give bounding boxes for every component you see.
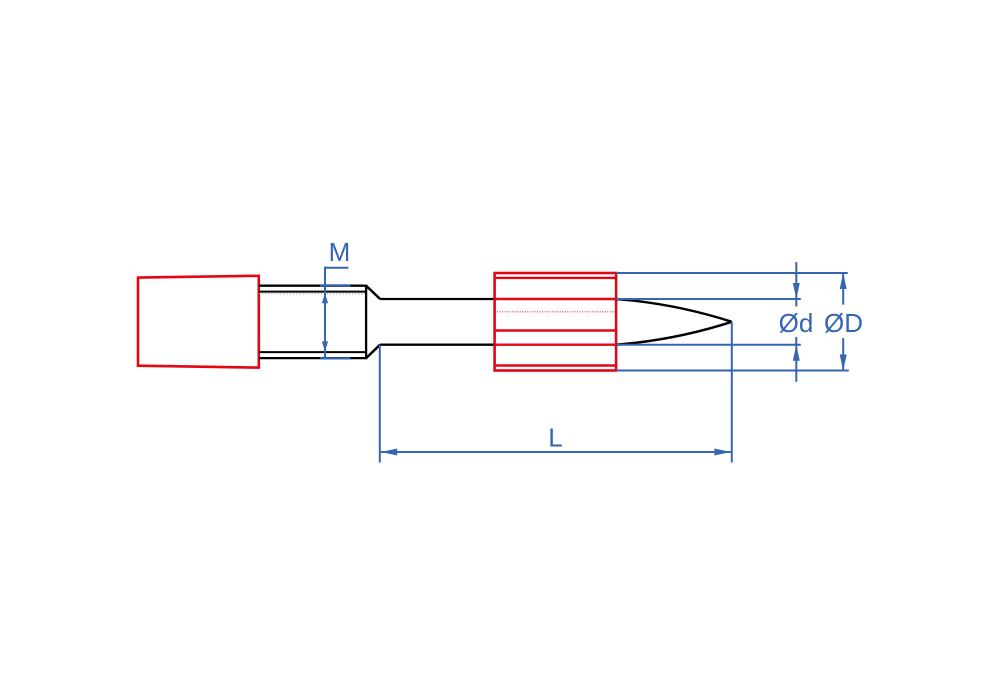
knurl line 3 thin — [495, 311, 616, 313]
thread inner bottom line — [259, 351, 366, 353]
knurled sleeve red box — [495, 273, 616, 371]
shaft top line — [380, 298, 495, 300]
knurl line 2 — [495, 298, 616, 300]
thread inner top line — [259, 291, 366, 293]
thread end vertical line — [365, 285, 367, 360]
extension line D knurl bottom — [616, 370, 849, 372]
dim Od upper line — [795, 262, 797, 307]
extension line C shaft bottom — [616, 344, 801, 346]
extension line A knurl top — [616, 272, 848, 274]
knurl line 5 — [495, 344, 616, 346]
svg-text:L: L — [548, 423, 562, 453]
dim M vertical line — [324, 267, 326, 359]
red protection cap — [138, 276, 259, 368]
chamfer top — [366, 286, 380, 299]
dim OD lower arrowhead — [840, 355, 847, 371]
dim L right arrowhead — [714, 449, 730, 456]
dim Od lower line — [795, 337, 797, 382]
dim L left extension line — [379, 345, 381, 463]
svg-text:ØD: ØD — [824, 308, 863, 338]
dim OD lower line — [842, 338, 844, 370]
thread minor dotted top line — [259, 293, 366, 295]
dim M leader horizontal — [324, 267, 349, 269]
dim M up arrowhead — [322, 293, 328, 303]
dim Od lower arrowhead — [793, 345, 800, 361]
knurl line 4 — [495, 329, 616, 331]
svg-text:Ød: Ød — [779, 308, 814, 338]
dim L right extension line — [731, 322, 733, 463]
thread outer bottom line — [259, 357, 366, 359]
knurl line 6 — [495, 364, 616, 366]
shaft bottom line — [380, 344, 495, 346]
tip ogive bottom curve — [616, 322, 732, 345]
dim OD upper arrowhead — [840, 273, 847, 289]
dim OD upper line — [842, 273, 844, 305]
chamfer bottom — [366, 345, 380, 358]
thread outer top line — [259, 285, 366, 287]
dim Od upper arrowhead — [793, 283, 800, 299]
dim L left arrowhead — [381, 449, 397, 456]
tip ogive top curve — [616, 299, 732, 322]
dim M down arrowhead — [322, 341, 328, 351]
knurl line 1 — [495, 277, 616, 279]
dim M bottom tick — [320, 357, 351, 359]
dim M top tick — [320, 284, 351, 286]
extension line B shaft top — [616, 298, 801, 300]
svg-text:M: M — [329, 237, 351, 267]
dim L line — [381, 451, 731, 453]
